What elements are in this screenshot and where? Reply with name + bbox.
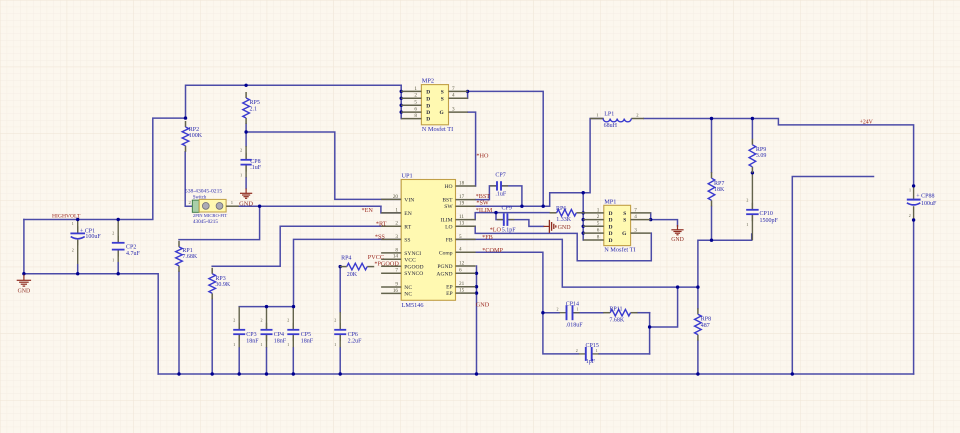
- resistor RP6 1.33K: [550, 206, 584, 223]
- CP8 pin 2 lead: [245, 146, 247, 160]
- capacitor CP2 4.7uF: [112, 231, 141, 263]
- UP1 right pin HO 18: [445, 180, 476, 190]
- UP1 left pin NC 16: [381, 288, 412, 298]
- junction MP2 pin1: [400, 90, 403, 93]
- resistor RP2 100K: [182, 121, 203, 152]
- resistor RP3 30.9K: [209, 268, 231, 300]
- capacitor CP3 18nF: [233, 318, 259, 347]
- svg-text:RP4: RP4: [341, 256, 351, 262]
- wire RP2 top to MP2 bus: [186, 85, 402, 118]
- junction EP b: [475, 291, 478, 294]
- UP1 left pin SYNCI 8: [381, 247, 421, 257]
- CP6 pin 1 lead: [339, 334, 341, 348]
- svg-text:8: 8: [395, 247, 398, 253]
- svg-text:1: 1: [577, 307, 579, 312]
- svg-text:1pF: 1pF: [586, 359, 596, 365]
- svg-text:PGND: PGND: [437, 264, 452, 270]
- svg-text:*PGOOD: *PGOOD: [374, 261, 399, 268]
- svg-text:18: 18: [459, 180, 465, 186]
- svg-text:RP11: RP11: [609, 306, 622, 312]
- svg-text:1500pF: 1500pF: [760, 218, 779, 224]
- junction CP15 tie: [648, 325, 651, 328]
- svg-text:CP9: CP9: [502, 205, 512, 211]
- wire RP11 CP15 tie: [649, 313, 651, 354]
- svg-text:SYNCO: SYNCO: [404, 271, 423, 277]
- svg-text:1: 1: [240, 172, 242, 177]
- wire MP2 gate down to HO: [468, 112, 476, 186]
- junction bus CP4: [265, 372, 268, 375]
- svg-text:D: D: [609, 224, 613, 230]
- CP8 pin 1 lead: [245, 165, 247, 178]
- ground GND at MP1 source: [671, 225, 684, 243]
- junction out RP7: [710, 117, 713, 120]
- svg-text:SYNCI: SYNCI: [404, 251, 421, 257]
- svg-text:*HO: *HO: [476, 152, 489, 159]
- svg-text:2: 2: [334, 318, 336, 323]
- CP1 bottom wire: [77, 264, 79, 274]
- CP3 pin 1 lead: [238, 334, 240, 348]
- svg-text:PGOOD: PGOOD: [404, 264, 423, 270]
- UP1 right pin BST 17: [442, 194, 475, 204]
- svg-text:VIN: VIN: [404, 197, 414, 203]
- wire SW net: [456, 119, 604, 207]
- UP1 right pin AGND 6: [436, 268, 475, 278]
- wire EN jog into pin 1: [381, 206, 401, 213]
- wire bottom GND bus: [158, 373, 913, 375]
- svg-text:5: 5: [414, 100, 417, 106]
- wire ILIM jog: [475, 213, 549, 220]
- svg-text:17: 17: [459, 194, 465, 200]
- svg-text:7: 7: [395, 268, 398, 274]
- MP2 drain pin 8: [401, 113, 430, 123]
- wire MP2 source to SW vertical: [468, 91, 544, 206]
- svg-text:9: 9: [395, 281, 398, 287]
- wire MP1 source pair: [650, 213, 652, 220]
- transistor MP2 N Mosfet TI body: [421, 78, 453, 133]
- CP4 pin 2 lead: [266, 307, 268, 330]
- connector SP1 538-43045-0215 switch: [185, 189, 234, 225]
- resistor RP5 2.1: [243, 92, 260, 124]
- wire HIGHVOLT rail top: [24, 118, 186, 219]
- UP1 left pin SYNCO 7: [381, 268, 423, 278]
- junction RP4 node: [339, 265, 342, 268]
- wire CP7 to SW: [501, 186, 522, 206]
- svg-text:43045-0215: 43045-0215: [193, 219, 218, 225]
- svg-text:1: 1: [287, 342, 289, 347]
- svg-text:S: S: [441, 89, 444, 95]
- svg-text:2: 2: [72, 247, 74, 252]
- svg-text:.018uF: .018uF: [566, 323, 584, 329]
- svg-text:8: 8: [414, 113, 417, 119]
- svg-text:1: 1: [746, 222, 748, 227]
- junction SW MP2: [542, 205, 545, 208]
- svg-text:RP6: RP6: [556, 206, 566, 212]
- wire UP1 gnd drop: [476, 266, 478, 374]
- svg-text:VCC: VCC: [404, 257, 416, 263]
- svg-text:BST: BST: [442, 198, 453, 204]
- UP1 left pin RT 2: [381, 221, 412, 231]
- wire MP2 source pair: [467, 91, 469, 98]
- UP1 left pin NC 9: [381, 281, 412, 291]
- svg-text:EN: EN: [404, 211, 411, 217]
- junction CP1 top: [76, 218, 79, 221]
- wire RP8 bottom: [697, 341, 699, 375]
- junction bus UP1 gnd: [475, 372, 478, 375]
- junction EP a: [475, 285, 478, 288]
- transistor MP1 N Mosfet TI body: [604, 198, 636, 253]
- wire RP7 bottom to FB: [711, 207, 713, 241]
- svg-text:RT: RT: [404, 224, 411, 230]
- junction CP2 bottom: [117, 272, 120, 275]
- svg-text:LO: LO: [445, 224, 452, 230]
- wire output rail: [644, 119, 914, 186]
- svg-text:1: 1: [233, 342, 235, 347]
- wire CP5 bottom: [292, 348, 294, 374]
- capacitor CP88 100uF (polarized): [907, 184, 937, 222]
- MP2 pin G 3: [439, 107, 467, 117]
- junction MP2 src: [466, 90, 469, 93]
- CP2 pin 1 lead: [117, 250, 119, 262]
- junction bus CP3: [238, 372, 241, 375]
- svg-text:*LO: *LO: [490, 227, 502, 234]
- svg-text:20K: 20K: [347, 272, 358, 278]
- svg-text:D: D: [609, 218, 613, 224]
- wire BST to CP7: [476, 186, 497, 200]
- svg-text:D: D: [609, 231, 613, 237]
- svg-text:4: 4: [452, 93, 455, 99]
- junction SW MP1 bus: [582, 191, 585, 194]
- capacitor CP9 5.1pF: [497, 205, 517, 233]
- junction EN switch node: [258, 205, 261, 208]
- wire fb tie to divider: [650, 287, 678, 327]
- svg-text:+24V: +24V: [860, 120, 874, 126]
- junction bus RP8: [696, 372, 699, 375]
- svg-text:2: 2: [287, 318, 289, 323]
- junction COMP CP14: [541, 311, 544, 314]
- CP4 pin 1 lead: [266, 334, 268, 348]
- capacitor CP5 18nF: [287, 318, 313, 347]
- svg-text:ILIM: ILIM: [440, 218, 452, 224]
- wire SS net: [294, 239, 402, 306]
- svg-text:RP8: RP8: [701, 316, 711, 322]
- svg-text:7: 7: [634, 207, 637, 213]
- svg-text:N Mosfet TI: N Mosfet TI: [422, 126, 453, 133]
- UP1 right pin PGND 12: [437, 260, 475, 270]
- svg-text:13: 13: [459, 221, 465, 227]
- svg-text:UP1: UP1: [402, 172, 413, 179]
- svg-text:30.9K: 30.9K: [215, 282, 231, 288]
- wire LO net: [475, 226, 651, 260]
- UP1 left pin VCC 14: [381, 254, 416, 264]
- svg-text:2: 2: [746, 198, 748, 203]
- svg-text:D: D: [609, 211, 613, 217]
- wire RP4 junction down to CP6: [339, 267, 341, 312]
- resistor RP9 3.09: [749, 139, 766, 173]
- svg-text:CP10: CP10: [760, 211, 773, 217]
- svg-text:2: 2: [261, 318, 263, 323]
- svg-text:*SS: *SS: [375, 233, 386, 240]
- capacitor CP4 18nF: [261, 318, 287, 347]
- svg-text:CP7: CP7: [495, 173, 505, 179]
- junction RP9 bot: [751, 171, 754, 174]
- svg-text:CP3: CP3: [246, 332, 256, 338]
- svg-text:18K: 18K: [714, 187, 725, 193]
- junction bus CP5: [292, 372, 295, 375]
- svg-text:18nF: 18nF: [246, 339, 259, 345]
- svg-text:SS: SS: [404, 237, 410, 243]
- svg-text:D: D: [426, 89, 430, 95]
- op-amp U1 controller UP1 LM5146 body: [401, 172, 455, 309]
- svg-text:HO: HO: [445, 184, 453, 190]
- UP1 left pin EN 1: [381, 207, 412, 217]
- switch pin 1 lead: [226, 205, 239, 207]
- svg-text:GND: GND: [476, 301, 490, 308]
- MP2 drain pin 6: [401, 107, 430, 117]
- junction CP1 bottom: [76, 272, 79, 275]
- wire CP8 top lead wire: [245, 132, 247, 146]
- wire CP6 bottom: [339, 348, 341, 374]
- wire soft-start caps top tie: [239, 306, 293, 308]
- wire CP9 right to gnd port: [508, 220, 544, 227]
- svg-text:1: 1: [72, 221, 74, 226]
- UP1 right pin EP 21: [446, 281, 476, 291]
- svg-text:12: 12: [459, 260, 465, 266]
- svg-text:7.68K: 7.68K: [609, 318, 625, 324]
- wire CP8 bottom to gnd: [245, 178, 247, 189]
- wire MP1 drain bus: [582, 193, 584, 240]
- UP1 right pin ILIM 11: [440, 214, 475, 224]
- MP2 drain pin 5: [401, 100, 430, 110]
- capacitor CP10 1500pF: [746, 198, 778, 227]
- junction bus RP3: [211, 372, 214, 375]
- svg-text:1.33K: 1.33K: [556, 217, 572, 223]
- wire GND rail bottom-left: [24, 220, 158, 375]
- svg-text:4: 4: [634, 214, 637, 220]
- wire MP2 drain bus: [400, 85, 402, 118]
- svg-text:5.1pF: 5.1pF: [502, 228, 517, 234]
- capacitor CP8 .1uF: [240, 148, 262, 178]
- junction CP4 top tee: [265, 305, 268, 308]
- CP1 pin 2 lead: [77, 240, 79, 264]
- junction GND corner: [22, 272, 25, 275]
- wire FB net: [456, 234, 752, 287]
- svg-text:1: 1: [596, 348, 598, 353]
- ground GND left rail: [17, 275, 31, 295]
- svg-text:5: 5: [597, 221, 600, 227]
- svg-text:68uH: 68uH: [604, 123, 618, 129]
- svg-text:1: 1: [112, 257, 114, 262]
- wire CP14 branch: [543, 312, 559, 314]
- svg-text:1: 1: [261, 342, 263, 347]
- junction FB RP8: [696, 285, 699, 288]
- MP1 pin S 4: [623, 214, 650, 224]
- wire CP88 bottom to bus: [913, 220, 915, 374]
- MP1 pin G 3: [622, 228, 651, 238]
- wire RP9 branch: [751, 119, 753, 139]
- junction SW CP7: [520, 205, 523, 208]
- svg-text:5: 5: [459, 234, 462, 240]
- CP1 pin 1 lead: [77, 220, 79, 234]
- MP1 drain pin 5: [583, 221, 612, 231]
- UP1 left pin PGOOD: [381, 264, 423, 270]
- UP1 right pin Comp 4: [439, 247, 476, 257]
- junction MP1 pin2: [582, 218, 585, 221]
- junction FB RP7: [710, 239, 713, 242]
- svg-text:*EN: *EN: [362, 207, 374, 214]
- MP1 drain pin 6: [583, 228, 612, 238]
- svg-text:538-43045-0215: 538-43045-0215: [185, 189, 222, 195]
- svg-text:*FB: *FB: [482, 234, 493, 241]
- svg-text:2: 2: [597, 214, 600, 220]
- resistor RP1 7.68K: [176, 241, 198, 272]
- svg-text:MP1: MP1: [604, 198, 616, 205]
- svg-text:N Mosfet TI: N Mosfet TI: [604, 247, 635, 254]
- svg-text:GND: GND: [558, 225, 572, 231]
- wire CP9 left stub: [496, 213, 504, 220]
- inductor LP1 68uH: [590, 111, 644, 129]
- junction MP1 pin5: [582, 225, 585, 228]
- svg-text:1: 1: [334, 342, 336, 347]
- capacitor CP1 100uF (polarized): [70, 221, 101, 252]
- capacitor CP6 2.2uF: [334, 318, 362, 347]
- svg-text:6: 6: [597, 228, 600, 234]
- svg-text:18nF: 18nF: [274, 339, 287, 345]
- svg-text:21: 21: [459, 281, 465, 287]
- svg-text:20: 20: [393, 194, 399, 200]
- UP1 right pin LO 13: [445, 221, 475, 231]
- svg-text:EP: EP: [446, 285, 453, 291]
- MP2 drain pin 1: [401, 86, 430, 96]
- svg-text:GND: GND: [18, 289, 31, 295]
- svg-text:S: S: [441, 96, 444, 102]
- svg-text:2: 2: [240, 148, 242, 153]
- svg-text:3: 3: [395, 234, 398, 240]
- svg-text:8: 8: [597, 234, 600, 240]
- svg-text:2: 2: [395, 221, 398, 227]
- junction CP9 tap: [494, 211, 497, 214]
- junction out RP9: [751, 117, 754, 120]
- svg-text:CP2: CP2: [126, 245, 136, 251]
- svg-text:S: S: [623, 211, 626, 217]
- svg-text:6: 6: [459, 268, 462, 274]
- CP10 pin 2 lead: [751, 173, 753, 210]
- svg-text:15: 15: [459, 288, 465, 294]
- wire MP1 source to gnd: [651, 220, 678, 226]
- junction PGND AGND: [475, 272, 478, 275]
- svg-text:1: 1: [597, 207, 600, 213]
- junction SS caps: [292, 305, 295, 308]
- junction MP2 pin6: [400, 110, 403, 113]
- svg-text:HIGHVOLT: HIGHVOLT: [52, 214, 81, 220]
- svg-text:CP6: CP6: [348, 332, 358, 338]
- junction CP2 top: [117, 218, 120, 221]
- svg-text:D: D: [609, 238, 613, 244]
- MP2 drain pin 2: [401, 93, 430, 103]
- junction bus sense: [791, 372, 794, 375]
- svg-text:4: 4: [459, 247, 462, 253]
- wire RP11 right jog: [638, 312, 650, 314]
- UP1 left pin VIN 20: [381, 194, 414, 204]
- capacitor CP7 .1uF: [490, 173, 508, 198]
- wire CP4 bottom: [266, 348, 268, 374]
- svg-text:.1uF: .1uF: [250, 165, 261, 171]
- svg-text:D: D: [426, 110, 430, 116]
- MP1 pin S 7: [623, 207, 650, 217]
- svg-text:*COMP: *COMP: [482, 247, 503, 254]
- svg-text:100uF: 100uF: [921, 201, 937, 207]
- svg-text:100K: 100K: [189, 133, 203, 139]
- svg-text:MP2: MP2: [422, 78, 434, 85]
- wire RT net: [212, 226, 401, 266]
- junction RP5 bottom: [244, 130, 247, 133]
- wire RP1 bottom to bus: [178, 272, 180, 375]
- wire CP15 right: [599, 353, 650, 355]
- CP5 pin 2 lead: [292, 307, 294, 330]
- resistor RP7 18K: [708, 172, 725, 206]
- junction MP1 src: [649, 218, 652, 221]
- ground GND at CP8: [239, 189, 253, 208]
- wire switch to EN junction: [239, 205, 381, 207]
- resistor RP11 7.68K: [603, 306, 637, 323]
- junction MP1 pin1: [582, 211, 585, 214]
- svg-text:D: D: [426, 103, 430, 109]
- svg-text:6: 6: [414, 107, 417, 113]
- svg-text:+ CP88: + CP88: [916, 194, 934, 200]
- svg-text:3: 3: [634, 228, 637, 234]
- junction MP2 pin2: [400, 97, 403, 100]
- wire sense stub L: [792, 177, 873, 375]
- svg-text:FB: FB: [446, 237, 453, 243]
- svg-text:D: D: [426, 96, 430, 102]
- wire VIN net from RP5: [246, 132, 401, 199]
- svg-text:.1uF: .1uF: [495, 191, 507, 197]
- svg-text:GND: GND: [239, 200, 253, 207]
- UP1 right pin EP 15: [446, 288, 476, 298]
- svg-text:16: 16: [393, 288, 399, 294]
- CP2 bottom wire: [117, 262, 119, 274]
- svg-text:*ILIM: *ILIM: [476, 207, 493, 214]
- svg-text:1: 1: [909, 187, 911, 192]
- svg-text:NC: NC: [404, 291, 412, 297]
- svg-text:3: 3: [452, 107, 455, 113]
- svg-text:NC: NC: [404, 285, 412, 291]
- junction MP1 pin6: [582, 231, 585, 234]
- svg-text:2: 2: [576, 348, 578, 353]
- svg-text:GND: GND: [671, 237, 684, 243]
- resistor RP8 487: [695, 308, 712, 340]
- junction RP2 top: [184, 116, 187, 119]
- UP1 left pin SS 3: [381, 234, 410, 244]
- svg-text:S: S: [623, 218, 626, 224]
- svg-text:*SW: *SW: [476, 200, 489, 207]
- MP1 drain pin 8: [583, 234, 612, 244]
- CP2 pin 2 lead: [117, 220, 119, 243]
- wire RP2 bottom to switch: [185, 152, 192, 206]
- svg-text:11: 11: [459, 214, 464, 220]
- wire RP8 top lead: [697, 287, 699, 308]
- wire EN junction down: [179, 206, 260, 239]
- svg-text:2.2uF: 2.2uF: [348, 339, 363, 345]
- svg-text:Comp: Comp: [439, 250, 453, 256]
- svg-text:*RT: *RT: [376, 221, 387, 228]
- wire CP14 to RP11: [573, 312, 604, 314]
- svg-text:RP1: RP1: [182, 248, 192, 254]
- svg-text:D: D: [426, 117, 430, 123]
- svg-text:487: 487: [701, 323, 710, 329]
- UP1 right pin FB 5: [446, 234, 476, 244]
- junction RP5 top: [244, 84, 247, 87]
- svg-text:2: 2: [233, 318, 235, 323]
